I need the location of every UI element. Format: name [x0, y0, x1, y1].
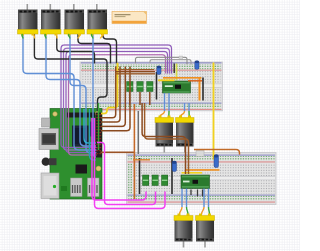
wire brown br9 — [139, 92, 141, 105]
wire purple p3 — [66, 52, 168, 153]
wire curl m7l — [180, 207, 183, 215]
motor M5 — [155, 116, 174, 153]
wire blue mid b5 — [164, 93, 166, 111]
wire curl m6l — [180, 111, 184, 117]
wire black k9 — [171, 158, 173, 194]
wire blue mid b8 — [188, 103, 190, 111]
Raspberry Pi U1 — [39, 109, 102, 200]
wire brown bundle br1 — [101, 67, 116, 118]
wire brown bus br7 — [115, 73, 155, 75]
wire purple p1 — [61, 45, 172, 148]
wire brown br8 — [129, 92, 131, 105]
IC U8 — [152, 175, 158, 186]
motor M2 — [41, 4, 62, 36]
wire brown brA — [142, 103, 185, 174]
wire yellow y5 — [182, 172, 203, 174]
wire black k8 — [139, 158, 141, 194]
wire curl m3 green — [69, 34, 70, 39]
wire purple p2 — [64, 48, 170, 150]
breadboard BB2 — [127, 153, 277, 205]
wire black k2 — [57, 33, 95, 64]
wire brown br2 — [101, 67, 120, 123]
wire blue w4 — [93, 33, 96, 157]
wire pink pk1 — [92, 118, 146, 200]
IC U5 — [137, 82, 143, 92]
wire orange o8 — [133, 104, 135, 199]
wire blue bm4 — [208, 189, 210, 208]
wire black k7 — [202, 78, 204, 101]
wire curl m1 yellow — [33, 34, 35, 39]
capacitor C1 — [157, 66, 161, 75]
wire blue w3 — [70, 33, 96, 153]
connector end J1 — [179, 56, 183, 59]
wire orange o1 — [163, 77, 202, 79]
wire blue w2 — [46, 33, 96, 146]
pin marks U3 — [191, 190, 203, 197]
wire yellow y3 — [158, 79, 175, 81]
wire black k5 — [156, 72, 158, 100]
capacitor C4 — [214, 155, 219, 168]
wire curl m2 yellow — [56, 34, 57, 39]
wire black k1 — [34, 33, 107, 111]
wire blue bm1 — [181, 189, 183, 208]
wire curl m6r — [188, 111, 190, 117]
wire pink pk2 — [95, 118, 166, 209]
wire pink pk3 — [97, 143, 156, 205]
wire gray k10 — [137, 111, 139, 154]
wire blue bm3 — [203, 189, 205, 208]
motor M1 — [18, 4, 39, 36]
wire yellow y1 — [101, 63, 118, 114]
wire curl m3 yellow — [78, 34, 80, 39]
wire teal w6 — [90, 109, 97, 160]
breadboard BB1 — [80, 62, 223, 111]
wire blue bm2 — [186, 189, 188, 208]
wire curl m8l — [202, 207, 205, 215]
motor M8 — [196, 214, 215, 248]
wire orange o6 — [194, 150, 240, 155]
wire curl m5r — [168, 111, 170, 117]
motor M3 — [64, 4, 85, 36]
driver board U3 — [181, 175, 210, 189]
wire orange o7 — [133, 159, 150, 161]
motor M6 — [176, 116, 195, 153]
wire blue mid b7 — [184, 103, 186, 111]
wire brown br4 — [101, 67, 130, 131]
motor M4 — [87, 4, 108, 36]
wire yellowgreen y4 — [176, 64, 178, 81]
note label N1 — [112, 12, 147, 24]
wire brown br10 — [149, 92, 151, 105]
wire black k6 — [173, 64, 175, 74]
wire black k4 — [103, 33, 117, 64]
wire orange o2 — [188, 80, 202, 82]
IC U7 — [143, 175, 149, 186]
wire curl m5l — [160, 111, 165, 117]
IC U9 — [162, 175, 168, 186]
IC U4 — [127, 82, 133, 92]
wire green g1 — [98, 103, 100, 150]
wire gray gl2 — [150, 60, 191, 65]
wire curl m4 yellow — [101, 34, 103, 39]
wire orange o3 — [199, 78, 201, 101]
wire brown brB — [145, 103, 189, 174]
wire blue w1 — [23, 33, 96, 150]
motor M7 — [174, 214, 193, 248]
wire gray gl1 — [136, 57, 188, 64]
wire curl m8r — [209, 207, 210, 215]
capacitor C3 — [172, 161, 176, 172]
wire brown bus br6a — [118, 69, 154, 71]
wire blue mid b6 — [168, 93, 170, 111]
wire curl m2 green — [45, 34, 46, 39]
wire curl m1 green — [22, 34, 23, 39]
wire brown br11 — [101, 151, 135, 153]
driver board U2 — [163, 81, 191, 93]
wire curl m7r — [187, 207, 189, 215]
wire yellow y2 — [213, 63, 215, 160]
wire cyan w5 — [84, 109, 96, 143]
wire brown br3 — [101, 67, 125, 127]
wire curl m4 green — [92, 34, 93, 39]
capacitor C2 — [195, 61, 199, 70]
label A1 — [196, 151, 204, 157]
wire purple p4 — [69, 55, 166, 155]
wire orange o5 — [186, 169, 220, 171]
wire black k3 — [78, 33, 111, 64]
wire brown bus br6 — [115, 71, 155, 73]
IC U6 — [147, 82, 153, 92]
